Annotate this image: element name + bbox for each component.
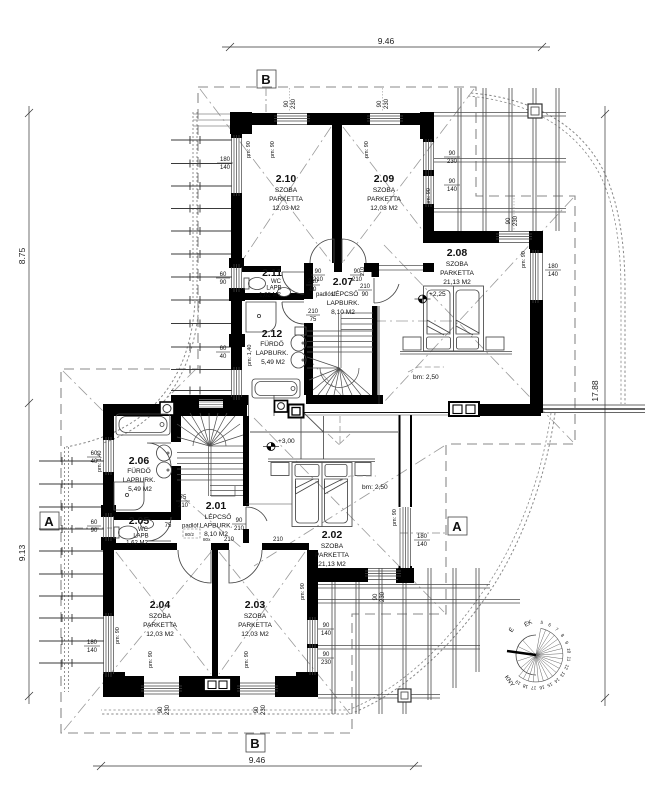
svg-text:90: 90 bbox=[284, 100, 290, 107]
room label 2.05 bbox=[126, 515, 149, 547]
svg-text:1,62 M2: 1,62 M2 bbox=[126, 541, 148, 547]
svg-text:90: 90 bbox=[449, 151, 456, 157]
svg-text:LAPB: LAPB bbox=[133, 534, 148, 540]
svg-text:1,62 M2: 1,62 M2 bbox=[259, 293, 281, 299]
eaves lines top-left corner bbox=[193, 114, 231, 126]
svg-text:90: 90 bbox=[449, 179, 456, 185]
window W13 bottom 2.04 bbox=[141, 683, 182, 694]
svg-text:21,13 M2: 21,13 M2 bbox=[318, 561, 346, 568]
svg-text:+2,25: +2,25 bbox=[429, 291, 446, 298]
window W9 right 2.08 bbox=[531, 250, 543, 303]
svg-text:90: 90 bbox=[323, 652, 330, 658]
svg-text:60: 60 bbox=[220, 272, 227, 278]
pergola grid bottom verticals bbox=[332, 568, 479, 714]
terrace edge lines below 2.08 bbox=[304, 412, 449, 414]
window W10 left 2.05 bbox=[104, 513, 114, 541]
pergola grid top-right verticals bbox=[458, 88, 559, 231]
svg-text:pm: 90: pm: 90 bbox=[244, 651, 250, 668]
svg-text:2.07: 2.07 bbox=[333, 276, 354, 288]
svg-text:140: 140 bbox=[548, 272, 559, 278]
svg-text:12,03 M2: 12,03 M2 bbox=[146, 631, 174, 638]
level marker +3,00 bbox=[263, 438, 295, 451]
compass sun diagram bbox=[503, 619, 572, 691]
wall partition 2.04/2.03 bbox=[212, 550, 218, 676]
level marker +2,25 bbox=[415, 291, 447, 303]
svg-text:9.13: 9.13 bbox=[17, 544, 27, 561]
wall pilaster lower-left w10 bbox=[101, 505, 116, 517]
svg-text:90: 90 bbox=[220, 280, 227, 286]
svg-text:pm: 90: pm: 90 bbox=[521, 251, 527, 268]
windows bbox=[104, 114, 543, 695]
svg-text:210: 210 bbox=[178, 503, 189, 509]
wall 2.08 top bbox=[434, 231, 499, 243]
door arc 2.11 bbox=[282, 272, 304, 294]
wall 2.11/2.12 bbox=[242, 293, 304, 300]
wall lower right bbox=[307, 582, 318, 697]
svg-text:210: 210 bbox=[308, 309, 319, 315]
svg-text:padlóf.: padlóf. bbox=[182, 524, 200, 530]
ceiling height marker 2.08 bbox=[408, 367, 444, 381]
wall partition 2.10/2.09 bbox=[332, 125, 342, 263]
window W14 bottom 2.03 bbox=[237, 683, 278, 694]
window W11 left 2.04 bbox=[104, 613, 114, 677]
room label 2.07 bbox=[327, 276, 360, 316]
svg-text:PARKETTA: PARKETTA bbox=[143, 622, 177, 629]
garden fence rail lower-left bbox=[64, 447, 66, 692]
trellis rung ticks lower-left ladder bbox=[62, 457, 72, 667]
shower 2.06 bbox=[114, 482, 144, 510]
svg-text:90: 90 bbox=[362, 292, 369, 298]
svg-text:180: 180 bbox=[220, 157, 231, 163]
window W18 right 2.02 bbox=[400, 507, 411, 568]
window W16 right 2.03 lower bbox=[308, 645, 318, 675]
roof ridge diagonals room 2.03 bbox=[219, 552, 350, 714]
svg-text:210: 210 bbox=[273, 537, 284, 543]
bathtub 2.06 bbox=[116, 414, 170, 435]
shower 2.12 bbox=[246, 302, 276, 332]
svg-text:210: 210 bbox=[234, 526, 245, 532]
section marker A left bbox=[40, 512, 112, 530]
svg-text:90: 90 bbox=[236, 518, 243, 524]
pergola post top-right bbox=[528, 104, 542, 118]
room label 2.11 bbox=[259, 267, 282, 299]
roof ridge diagonals room 2.09 bbox=[343, 89, 474, 262]
wall 2.02 bottom bbox=[310, 568, 368, 582]
svg-text:12,03 M2: 12,03 M2 bbox=[241, 631, 269, 638]
wall upper left bbox=[231, 113, 242, 404]
dimension line top 9.46 bbox=[222, 46, 550, 48]
wall 2.06/2.05 bbox=[114, 512, 181, 520]
svg-text:180: 180 bbox=[417, 534, 428, 540]
column circle box on lower top wall bbox=[160, 402, 174, 415]
wall lower top bbox=[103, 395, 541, 416]
svg-text:WC: WC bbox=[271, 279, 282, 285]
svg-text:210: 210 bbox=[308, 279, 319, 285]
svg-text:A: A bbox=[452, 519, 462, 534]
wall 2.02 right double line bbox=[400, 415, 412, 570]
svg-text:2.09: 2.09 bbox=[374, 173, 395, 185]
svg-text:210: 210 bbox=[352, 277, 363, 283]
svg-text:21,13 M2: 21,13 M2 bbox=[443, 279, 471, 286]
svg-text:230: 230 bbox=[321, 660, 332, 666]
svg-text:180: 180 bbox=[87, 640, 98, 646]
svg-text:2.12: 2.12 bbox=[262, 328, 283, 340]
svg-text:pm: 90: pm: 90 bbox=[364, 141, 370, 158]
svg-text:pm: 90: pm: 90 bbox=[426, 188, 432, 205]
garden fence curve left inner bbox=[103, 301, 199, 443]
svg-text:pm: 1,40: pm: 1,40 bbox=[97, 451, 103, 472]
svg-text:FÜRDŐ: FÜRDŐ bbox=[127, 466, 150, 475]
wall corner lower bottom-right bbox=[296, 672, 318, 697]
wall pilaster left w4 bbox=[229, 288, 245, 301]
svg-text:90: 90 bbox=[323, 623, 330, 629]
wall pilaster left w3 bbox=[229, 258, 244, 268]
svg-text:B: B bbox=[250, 736, 259, 751]
svg-text:230: 230 bbox=[291, 98, 297, 109]
svg-text:17.88: 17.88 bbox=[590, 380, 600, 402]
section marker B top bbox=[257, 70, 276, 116]
svg-text:230: 230 bbox=[513, 215, 519, 226]
svg-text:12,03 M2: 12,03 M2 bbox=[272, 205, 300, 212]
svg-text:pm: 1,40: pm: 1,40 bbox=[247, 345, 253, 366]
svg-text:140: 140 bbox=[321, 631, 332, 637]
svg-text:2.02: 2.02 bbox=[322, 529, 343, 541]
garden fence dotted curve top-right bbox=[471, 93, 625, 404]
svg-text:SZOBA: SZOBA bbox=[321, 543, 344, 550]
svg-text:2.11: 2.11 bbox=[262, 267, 282, 279]
svg-text:A: A bbox=[44, 514, 54, 529]
svg-text:80/2: 80/2 bbox=[185, 532, 194, 537]
svg-text:SZOBA: SZOBA bbox=[149, 613, 172, 620]
svg-text:pm: 90: pm: 90 bbox=[246, 141, 252, 158]
svg-text:230: 230 bbox=[447, 159, 458, 165]
window W3 left 2.10 bbox=[232, 135, 242, 196]
svg-text:WC: WC bbox=[138, 527, 149, 533]
svg-text:+3,00: +3,00 bbox=[278, 438, 295, 445]
svg-text:17: 17 bbox=[531, 685, 537, 690]
room label 2.10 bbox=[269, 173, 303, 212]
svg-text:SZOBA: SZOBA bbox=[275, 187, 298, 194]
door arc 2.12 bbox=[282, 302, 304, 324]
svg-text:8.75: 8.75 bbox=[17, 247, 27, 264]
svg-text:230: 230 bbox=[165, 704, 171, 715]
window W7 right 2.09 lower bbox=[424, 173, 434, 207]
svg-text:60: 60 bbox=[91, 520, 98, 526]
wall corner upper top-left bbox=[230, 112, 252, 134]
svg-text:LAPBURK.: LAPBURK. bbox=[256, 350, 289, 357]
trellis rungs upper-left ladder bbox=[171, 140, 232, 391]
skylight dashed box 2.01 bbox=[183, 529, 211, 542]
roof overhang dashed outline bbox=[61, 87, 575, 733]
dimension line right 17.88 bbox=[604, 106, 606, 706]
window W5 left 2.12 bbox=[232, 367, 242, 400]
door size labels bbox=[165, 269, 372, 543]
room label 2.02 bbox=[315, 529, 349, 568]
svg-text:2.04: 2.04 bbox=[150, 599, 171, 611]
svg-text:9.46: 9.46 bbox=[378, 36, 395, 46]
svg-text:90: 90 bbox=[506, 217, 512, 224]
section marker A right bbox=[400, 517, 467, 535]
window W6 right 2.09 upper bbox=[424, 139, 434, 173]
svg-text:5,49 M2: 5,49 M2 bbox=[128, 486, 152, 493]
wall corner 2.02 bottom-right bbox=[396, 568, 414, 583]
svg-text:PARKETTA: PARKETTA bbox=[367, 196, 401, 203]
svg-text:140: 140 bbox=[417, 542, 428, 548]
svg-text:2.08: 2.08 bbox=[447, 247, 468, 259]
pergola post bottom bbox=[398, 689, 411, 702]
stair void railing lower bbox=[250, 413, 398, 459]
wall pilaster left w5 bbox=[229, 334, 245, 347]
wall corner lower bottom-left bbox=[103, 672, 125, 697]
svg-text:45: 45 bbox=[309, 287, 315, 293]
svg-text:230: 230 bbox=[384, 98, 390, 109]
svg-text:8,10 M2: 8,10 M2 bbox=[331, 309, 355, 316]
sink 2.05 bbox=[141, 520, 154, 529]
wall right of stair 2.01 bbox=[243, 416, 249, 543]
section marker B bottom bbox=[246, 734, 265, 752]
door arc 2.10 bbox=[147, 239, 399, 583]
window W15 right 2.03 upper bbox=[308, 617, 318, 647]
rotated window labels bbox=[158, 98, 519, 715]
svg-text:B: B bbox=[261, 72, 270, 87]
svg-text:2.10: 2.10 bbox=[276, 173, 297, 185]
dimension line bottom 9.46 bbox=[93, 765, 422, 767]
svg-text:80x: 80x bbox=[203, 537, 211, 542]
door arc 2.05 bbox=[147, 517, 171, 541]
svg-text:2.06: 2.06 bbox=[129, 455, 150, 467]
svg-text:pm: 90: pm: 90 bbox=[148, 651, 154, 668]
svg-text:140: 140 bbox=[447, 187, 458, 193]
window W1 top 2.10 bbox=[274, 114, 310, 125]
window W17 bottom 2.02 bbox=[365, 569, 401, 580]
bed 2.08 bbox=[400, 286, 512, 354]
roof hip top-left lower block bbox=[63, 371, 113, 421]
wall left of stair 2.01 bbox=[171, 416, 181, 518]
svg-text:LAPBURK.: LAPBURK. bbox=[327, 300, 360, 307]
svg-text:90: 90 bbox=[315, 269, 322, 275]
svg-text:LÉPCSŐ: LÉPCSŐ bbox=[205, 512, 232, 521]
svg-text:2.03: 2.03 bbox=[245, 599, 266, 611]
SECTION:SITE bbox=[101, 112, 543, 697]
toilet 2.11 bbox=[244, 278, 266, 290]
svg-text:PARKETTA: PARKETTA bbox=[238, 622, 272, 629]
svg-text:140: 140 bbox=[220, 165, 231, 171]
svg-text:SZOBA: SZOBA bbox=[373, 187, 396, 194]
room label 2.06 bbox=[123, 455, 156, 493]
room label 2.03 bbox=[238, 599, 272, 638]
roof ridge diagonals room 2.08 bbox=[384, 245, 573, 442]
wall lower bottom bbox=[125, 676, 318, 697]
svg-text:75: 75 bbox=[310, 317, 317, 323]
chimney box 2.02 top wall bbox=[449, 402, 479, 416]
svg-text:12,03 M2: 12,03 M2 bbox=[370, 205, 398, 212]
washbasins 2.12 bbox=[291, 327, 306, 368]
room label 2.04 bbox=[143, 599, 177, 638]
svg-text:LAPB: LAPB bbox=[266, 286, 281, 292]
stairwell top window hatch bbox=[199, 400, 223, 408]
garden wall line right of 2.08 bbox=[543, 405, 645, 413]
sink 2.11 bbox=[278, 288, 291, 297]
witness dotted lines windows bbox=[290, 88, 515, 230]
svg-text:75: 75 bbox=[165, 523, 172, 529]
stair wall face line and hall opening reveals bbox=[378, 306, 380, 404]
wall 2.08 right bbox=[530, 249, 543, 413]
svg-text:PARKETTA: PARKETTA bbox=[440, 270, 474, 277]
garden fence rail upper-left bbox=[192, 112, 194, 301]
svg-text:90: 90 bbox=[158, 706, 164, 713]
window W12 left 2.06 bbox=[104, 437, 114, 475]
wall hall north bbox=[242, 263, 434, 272]
door arc 2.02 bbox=[246, 507, 267, 529]
svg-text:90: 90 bbox=[254, 706, 260, 713]
parapet labels pm bbox=[97, 141, 527, 668]
svg-text:LAPBURK.: LAPBURK. bbox=[123, 477, 156, 484]
garden fence dotted curve bottom-right bbox=[101, 413, 555, 714]
bathtub 2.12 bbox=[252, 379, 300, 398]
wall lower left bbox=[103, 404, 114, 697]
svg-text:padlósf.: padlósf. bbox=[316, 292, 337, 298]
svg-text:210: 210 bbox=[360, 284, 371, 290]
svg-text:230: 230 bbox=[380, 591, 386, 602]
window size labels with fraction bars bbox=[84, 151, 561, 666]
room label 2.01 bbox=[200, 500, 233, 538]
svg-text:bm: 2,50: bm: 2,50 bbox=[362, 484, 388, 491]
trellis rungs lower-left ladder bbox=[39, 461, 104, 663]
svg-text:90: 90 bbox=[377, 100, 383, 107]
roof ridge diagonals room 2.02 bbox=[254, 418, 444, 612]
svg-text:40: 40 bbox=[220, 354, 227, 360]
wall right of 2.11 2.12 bbox=[304, 263, 313, 395]
door arc 2.06 bbox=[147, 443, 171, 467]
pergola grid bottom beams bbox=[318, 585, 520, 699]
svg-text:pm: 90: pm: 90 bbox=[270, 141, 276, 158]
svg-text:SZOBA: SZOBA bbox=[446, 261, 469, 268]
trellis rung ticks upper-left ladder bbox=[190, 136, 200, 395]
svg-text:pm: 90: pm: 90 bbox=[115, 627, 121, 644]
svg-text:PARKETTA: PARKETTA bbox=[315, 552, 349, 559]
svg-text:SZOBA: SZOBA bbox=[244, 613, 267, 620]
svg-text:pm: 90: pm: 90 bbox=[300, 583, 306, 600]
wall right of stair 2.07 bbox=[372, 263, 380, 404]
pergola grid top-right beams bbox=[434, 113, 566, 213]
room label 2.08 bbox=[440, 247, 474, 286]
window W2 top 2.09 bbox=[367, 114, 403, 125]
svg-text:140: 140 bbox=[87, 648, 98, 654]
wall right of 2.09 bbox=[423, 126, 434, 243]
chimney box upper bottom wall bbox=[275, 401, 304, 418]
svg-text:210: 210 bbox=[224, 537, 235, 543]
svg-text:90: 90 bbox=[91, 528, 98, 534]
svg-text:FÜRDŐ: FÜRDŐ bbox=[260, 339, 283, 348]
roof ridge diagonals room 2.04 bbox=[64, 552, 211, 730]
staircase 2.07 bbox=[307, 313, 373, 395]
washbasins 2.06 bbox=[157, 445, 172, 478]
door arc 2.03 bbox=[229, 550, 262, 583]
svg-text:PARKETTA: PARKETTA bbox=[269, 196, 303, 203]
door arc 2.09 bbox=[342, 239, 366, 263]
toilet 2.05 bbox=[114, 526, 138, 539]
window W8 top 2.08 bbox=[496, 232, 532, 243]
svg-text:9.46: 9.46 bbox=[249, 755, 266, 765]
svg-text:bm: 2,50: bm: 2,50 bbox=[413, 374, 439, 381]
svg-text:5,49 M2: 5,49 M2 bbox=[261, 359, 285, 366]
door arc 2.04 bbox=[178, 550, 211, 583]
door arc hall to 2.08 bbox=[374, 278, 399, 303]
svg-text:2.01: 2.01 bbox=[206, 500, 227, 512]
svg-text:60: 60 bbox=[220, 346, 227, 352]
wall corner upper top-right bbox=[420, 112, 434, 139]
svg-text:75: 75 bbox=[180, 495, 187, 501]
svg-text:210: 210 bbox=[360, 267, 366, 276]
window W4 left 2.11 bbox=[232, 264, 242, 292]
wall corner 2.08 top-right bbox=[529, 231, 543, 249]
svg-text:pm: 90: pm: 90 bbox=[392, 509, 398, 526]
wall upper bottom bbox=[231, 395, 383, 405]
wall top of rooms 2.04 2.03 bbox=[114, 543, 309, 550]
svg-text:LAPBURK.: LAPBURK. bbox=[200, 523, 233, 530]
wall upper top bbox=[232, 113, 434, 125]
svg-text:230: 230 bbox=[261, 704, 267, 715]
dimension line left 8.75 / 9.13 bbox=[28, 106, 30, 704]
svg-text:180: 180 bbox=[548, 264, 559, 270]
room label 2.12 bbox=[256, 328, 289, 366]
wall step right of 2.03 bbox=[307, 550, 318, 582]
roof ridge diagonals room 2.10 bbox=[63, 89, 573, 730]
staircase 2.01 bbox=[177, 413, 243, 496]
svg-text:2.05: 2.05 bbox=[129, 515, 150, 527]
svg-text:90: 90 bbox=[373, 593, 379, 600]
garden fence curve left outer bbox=[66, 301, 195, 447]
room label 2.09 bbox=[367, 173, 401, 212]
chimney box bottom wall bbox=[204, 678, 231, 691]
bed 2.02 bbox=[268, 459, 375, 527]
ceiling height marker 2.02 bbox=[340, 476, 388, 491]
